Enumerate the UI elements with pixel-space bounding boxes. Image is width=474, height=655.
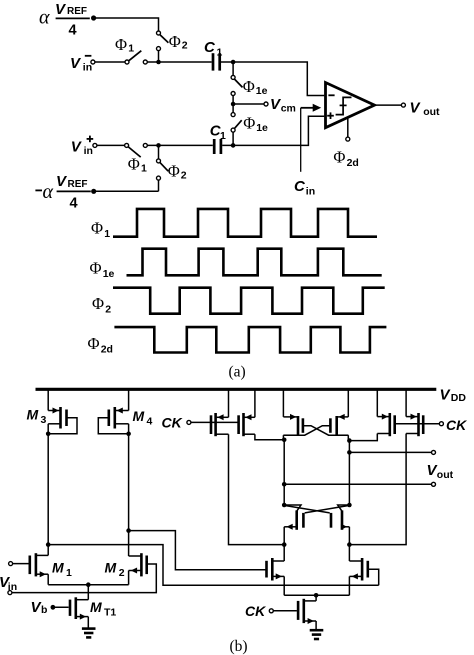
terminal Vcm with label <box>264 96 296 115</box>
transistor P4 (cross-coupled PMOS right) <box>329 414 348 435</box>
svg-text:1: 1 <box>220 130 226 142</box>
svg-text:CK: CK <box>245 603 266 619</box>
wire CK to gates of P1 P2 <box>191 421 239 423</box>
ground symbol (under latch tail) <box>310 630 324 639</box>
label M4 <box>133 408 153 428</box>
wire Vin+ to M1 gate <box>13 563 29 565</box>
wire N2 source down to internal node right <box>348 527 350 545</box>
node dot M4 drain/gate <box>126 432 131 437</box>
svg-text:Φ: Φ <box>90 259 102 278</box>
label M2 <box>105 560 125 580</box>
wire right output to Vout+ terminal <box>349 451 431 453</box>
transistor P5 (precharge PMOS, CK right) <box>377 413 396 436</box>
svg-text:M: M <box>52 560 64 576</box>
node dot latch internal left <box>282 542 287 547</box>
terminal Vin+ with label <box>71 136 97 158</box>
clock stub phi2d on comparator <box>347 118 349 138</box>
wire to Vcm terminal <box>233 103 264 105</box>
terminal Vin- with label <box>70 55 95 74</box>
svg-text:2: 2 <box>119 567 125 579</box>
terminal Vout- (part b) <box>432 482 436 486</box>
svg-text:REF: REF <box>67 6 87 17</box>
node dot left output (P2/P3 drains) <box>282 438 287 443</box>
wire from alpha*VREF/4 to phi2 switch (top) <box>94 18 159 31</box>
wire N3 source down to tail node <box>283 576 285 595</box>
svg-text:2d: 2d <box>347 157 359 169</box>
wire P4 gate to left output node (cross coupling) <box>283 426 330 436</box>
label phi1e (waveform row) <box>90 259 115 281</box>
capacitance annotation arrow Cin <box>301 104 322 172</box>
wire M1 source down to source rail <box>47 574 49 585</box>
svg-text:4: 4 <box>147 416 153 428</box>
label phi1e (lower) <box>243 114 268 134</box>
transistor N1 (cross-coupled NMOS left) <box>284 505 305 530</box>
wire left output to Vout- terminal <box>284 483 431 485</box>
switch phi2 (bottom, vertical) <box>157 145 169 191</box>
wire switch phi1 to capacitor C1 (bottom) <box>147 144 213 146</box>
svg-text:DD: DD <box>451 392 467 404</box>
svg-text:out: out <box>423 106 440 118</box>
wire P5/P6 gates to CK right terminal <box>395 423 440 425</box>
transistor P6 (precharge PMOS, CK right) <box>406 413 424 436</box>
svg-text:Φ: Φ <box>92 294 104 313</box>
waveform phi1e <box>127 249 382 276</box>
wire N4 gate bracket to preamp left output line <box>368 569 379 585</box>
wire MT1 drain up to common source node <box>87 585 89 600</box>
wire VDD to P6 source <box>405 389 407 416</box>
svg-text:M: M <box>27 407 39 423</box>
svg-text:1e: 1e <box>256 122 268 134</box>
svg-text:3: 3 <box>41 414 47 426</box>
node dot on Vin- line at phi2 switch <box>156 60 161 65</box>
terminal Vout (part a) with label <box>401 100 440 118</box>
transistor N2 (cross-coupled NMOS right) <box>330 505 350 530</box>
node dot at -alpha*VREF/4 output <box>91 189 96 194</box>
wire N1 source down to internal node left <box>283 527 285 545</box>
node dot N1 drain <box>282 503 287 508</box>
label Vin (part b) <box>0 574 17 593</box>
wire M3 drain to diode node <box>47 424 49 434</box>
node dot preamp output right (M2 drain) <box>126 528 131 533</box>
wire common source rail M1-M2 <box>48 584 128 586</box>
svg-text:in: in <box>84 145 93 157</box>
svg-text:M: M <box>105 560 117 576</box>
transistor N4 (latch input NMOS right) <box>349 558 369 581</box>
wire VDD to P4 source <box>347 389 349 417</box>
wire tail switch drain up to tail node <box>315 595 317 601</box>
svg-text:Φ: Φ <box>91 219 103 238</box>
node dot latch tail <box>314 593 319 598</box>
node dot M3 drain/gate <box>46 432 51 437</box>
terminal Vb with label <box>31 599 56 616</box>
wire P4 drain down to right output node <box>347 435 349 440</box>
wire P6 drain to latch internal node (right) <box>349 434 406 545</box>
svg-text:out: out <box>437 469 454 481</box>
svg-text:cm: cm <box>281 103 296 115</box>
wire M4 drain down to M2 drain <box>128 434 130 556</box>
transistor M4 (diode-connected PMOS load) <box>98 407 128 434</box>
switch phi1 (on Vin+ line) <box>125 143 148 157</box>
wire preamp left output to N4 gate <box>48 545 379 586</box>
wire phi2 switch to Vin- line <box>158 51 160 62</box>
wire comparator output <box>375 104 402 106</box>
wire switch phi1 to capacitor C1 (top) <box>147 61 211 63</box>
label Vout (part b) <box>427 462 454 481</box>
switch phi1e (upper) <box>231 75 242 95</box>
svg-text:1e: 1e <box>256 85 268 97</box>
svg-text:2: 2 <box>105 303 111 315</box>
wire C1 bottom to comparator + input <box>222 116 324 145</box>
svg-text:2: 2 <box>181 170 187 182</box>
node dot left Vout tap <box>282 482 287 487</box>
svg-text:1: 1 <box>141 163 147 175</box>
svg-text:M: M <box>133 408 145 424</box>
transistor M1 (input NMOS left) <box>29 553 49 577</box>
label phi1e (upper) <box>243 77 268 97</box>
wire MT1 source to ground <box>87 617 89 629</box>
waveform phi2 <box>113 288 385 314</box>
wire -alpha*VREF/4 to phi2 switch (bottom) <box>94 190 159 192</box>
svg-text:Φ: Φ <box>88 334 100 353</box>
svg-text:(b): (b) <box>230 638 248 655</box>
svg-text:Φ: Φ <box>168 162 180 181</box>
wire VDD to P2 source <box>254 389 256 417</box>
label -alpha*VREF/4 (bottom reference input) <box>35 173 90 212</box>
comparator U1 (latched) <box>326 83 375 128</box>
ground symbol (under MT1) <box>82 629 96 638</box>
wire VDD to P3 source <box>282 389 284 417</box>
wire Vcm node to phi1e switch 2 <box>232 104 234 113</box>
power rail VDD <box>36 388 437 391</box>
terminal CK (left) with label <box>162 415 191 431</box>
svg-text:α: α <box>43 181 54 203</box>
label Cin <box>294 178 315 198</box>
svg-text:Φ: Φ <box>115 35 127 54</box>
wire N4 drain up to internal node right <box>348 545 350 561</box>
node dot on Vin+ line at phi2 switch <box>156 143 161 148</box>
wire N3 drain up to internal node left <box>283 545 285 561</box>
svg-text:1: 1 <box>104 228 110 240</box>
terminal CK (tail) with label <box>245 603 273 619</box>
label phi1 (top) <box>115 35 134 55</box>
svg-text:α: α <box>39 7 50 29</box>
wire VDD to M4 source <box>128 389 130 410</box>
wire phi1e switch 2 to bottom node <box>232 132 234 145</box>
wire CK to tail switch gate <box>273 610 297 612</box>
svg-text:REF: REF <box>68 179 88 190</box>
transistor M2 (input NMOS right) <box>129 553 148 576</box>
capacitor C1 (top) <box>212 53 221 70</box>
svg-text:C: C <box>204 39 216 56</box>
svg-text:2: 2 <box>182 40 188 52</box>
transistor P1 (precharge PMOS, CK) <box>210 413 229 436</box>
wire N1 gate to N2 drain (cross coupling) <box>305 505 350 513</box>
wire P1 drain to latch internal node (left) <box>229 434 285 544</box>
terminal phi2d with label <box>333 137 358 169</box>
wire Vin- to M2 gate <box>12 564 156 593</box>
svg-text:1e: 1e <box>103 268 115 280</box>
label alpha*VREF/4 (top reference input) <box>39 1 90 39</box>
svg-text:CK: CK <box>446 417 467 433</box>
node dot right Vout tap <box>347 450 352 455</box>
node dot preamp output left (M1 drain) <box>46 542 51 547</box>
wire VDD to P5 source <box>376 389 378 416</box>
wire P2 drain to latch output node (left) <box>255 434 284 440</box>
wire M3 drain down to M1 drain <box>47 434 49 556</box>
label phi2 (waveform row) <box>92 294 111 316</box>
terminal Vin- (part b) <box>8 591 12 595</box>
label VDD <box>440 387 467 405</box>
label M3 <box>27 407 47 427</box>
svg-text:1: 1 <box>217 47 223 59</box>
wire C1 top to comparator - input <box>221 62 324 96</box>
label phi1 (bottom) <box>128 155 147 175</box>
wire N4 source down to tail node <box>348 576 350 595</box>
terminal Vout+ (part b) <box>432 450 436 454</box>
label M1 <box>52 560 72 580</box>
wire VDD to P1 source <box>228 389 230 417</box>
label C1 (bottom) <box>210 123 226 143</box>
wire phi1e switch 1 to Vcm node <box>232 96 234 105</box>
svg-text:4: 4 <box>70 196 78 212</box>
svg-text:Φ: Φ <box>128 155 140 174</box>
capacitor C1 (bottom) <box>213 139 222 154</box>
node dot Vcm tap <box>231 102 236 107</box>
svg-text:CK: CK <box>162 415 183 431</box>
wire M2 source down to source rail <box>128 571 130 585</box>
wire Vin+ terminal to switch phi1 (bottom) <box>97 144 125 146</box>
transistor N3 (latch input NMOS left) <box>265 558 284 581</box>
transistor P3 (cross-coupled PMOS left) <box>283 414 304 435</box>
node dot at alpha*VREF/4 output <box>91 15 96 20</box>
node dot N2 drain <box>347 503 352 508</box>
wire tail switch source to ground <box>315 621 317 630</box>
svg-text:(a): (a) <box>229 363 246 380</box>
svg-text:4: 4 <box>69 23 77 39</box>
wire tail line of latch <box>284 594 349 596</box>
transistor M3 (diode-connected PMOS load) <box>48 407 77 434</box>
node dot bottom of phi1e column <box>231 143 236 148</box>
node dot latch internal right <box>347 542 352 547</box>
transistor NT (latch tail NMOS, CK) <box>297 599 316 624</box>
label C1 (top) <box>204 39 223 59</box>
wire N2 gate to N1 drain (cross coupling) <box>284 505 330 513</box>
wire M4 drain to diode node <box>128 424 130 434</box>
node dot right output (P4/P5 drains) <box>347 438 352 443</box>
switch phi1e (lower) <box>231 113 242 133</box>
waveform phi2d <box>114 327 386 352</box>
label phi1 (waveform row) <box>91 219 110 241</box>
label MT1 <box>90 599 116 619</box>
wire right output column down <box>348 441 350 505</box>
transistor MT1 (tail current source NMOS) <box>69 597 89 619</box>
svg-text:b: b <box>41 604 47 616</box>
node dot top of phi1e column <box>231 60 236 65</box>
svg-text:Φ: Φ <box>243 77 255 96</box>
waveform phi1 <box>113 209 377 237</box>
wire P3 gate to right output node (cross coupling) <box>303 426 348 436</box>
switch phi1 (on Vin- line) <box>125 51 147 64</box>
svg-text:T1: T1 <box>104 607 116 619</box>
svg-text:2d: 2d <box>101 343 113 355</box>
wire P3 drain down to left output node <box>282 435 284 440</box>
wire left output column down <box>283 440 285 505</box>
svg-text:C: C <box>294 178 306 195</box>
switch phi2 (top, vertical) <box>157 31 169 51</box>
wire Vb to MT1 gate <box>53 606 69 608</box>
svg-text:1: 1 <box>128 43 134 55</box>
wire node to phi1e switch 1 <box>232 62 234 76</box>
wire P5 drain to right output node <box>349 434 377 441</box>
wire preamp right output to N3 gate <box>129 531 267 570</box>
label phi2 (top switch) <box>169 32 188 52</box>
wire Vin- terminal to switch phi1 <box>95 61 125 63</box>
svg-text:Φ: Φ <box>333 148 345 167</box>
svg-text:Φ: Φ <box>169 32 181 51</box>
wire VDD to M3 source <box>47 389 49 410</box>
node dot common source <box>86 582 91 587</box>
svg-text:M: M <box>90 599 102 615</box>
terminal CK (right) with label <box>439 417 467 433</box>
terminal Vin+ (part b) <box>9 562 13 566</box>
svg-text:1: 1 <box>66 567 72 579</box>
transistor P2 (precharge PMOS, CK) <box>237 413 255 436</box>
label phi2d (waveform row) <box>88 334 113 356</box>
svg-text:Φ: Φ <box>243 114 255 133</box>
svg-text:in: in <box>306 186 315 198</box>
label phi2 (bottom switch) <box>168 162 187 182</box>
